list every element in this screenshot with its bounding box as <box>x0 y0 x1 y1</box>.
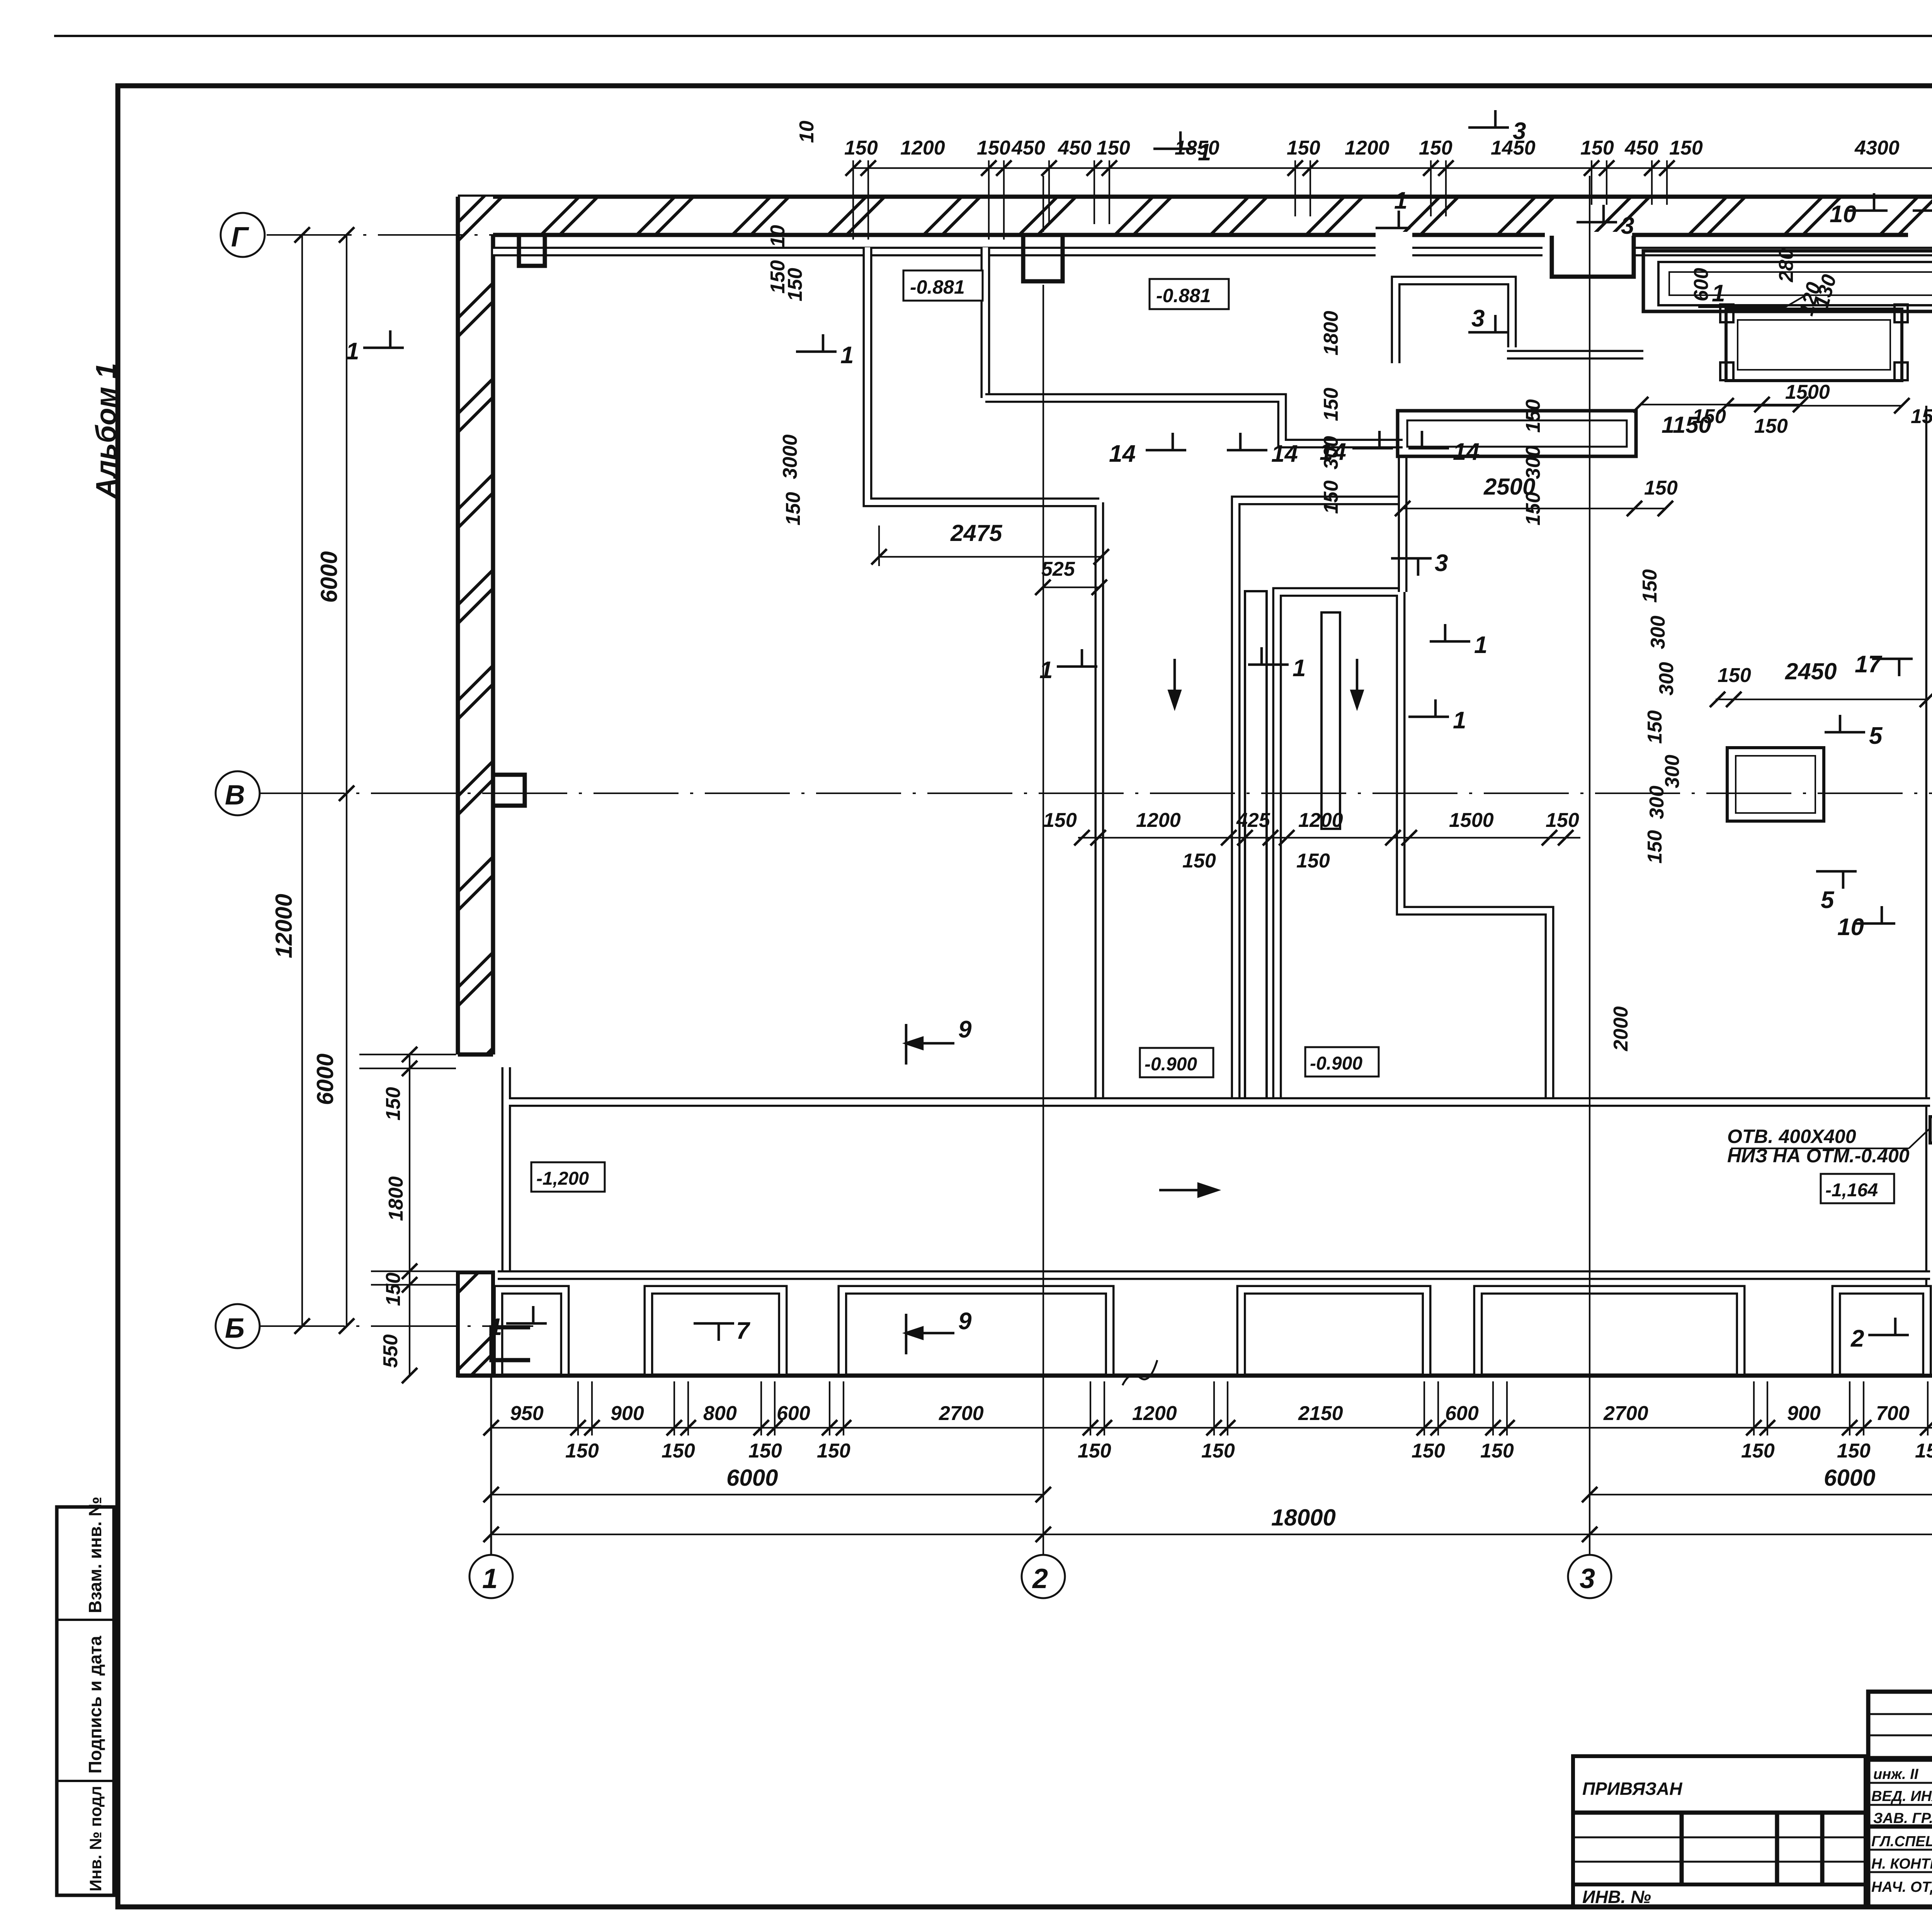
svg-text:6000: 6000 <box>316 551 342 603</box>
dim line 1500 pit <box>1692 381 1932 428</box>
axis 3 line <box>1589 176 1590 1555</box>
corridor channel -1.200 top edge <box>506 1067 1930 1275</box>
svg-text:1800: 1800 <box>1320 311 1342 355</box>
channel H2 to the right <box>1507 350 1643 360</box>
bottom dim labels row2 150 <box>565 1440 1932 1462</box>
flag 3 above wall <box>1468 110 1526 145</box>
svg-text:7: 7 <box>736 1318 750 1344</box>
svg-text:2450: 2450 <box>1785 658 1837 684</box>
svg-text:18000: 18000 <box>1271 1505 1336 1531</box>
channel V6 vertical right <box>1930 406 1932 1374</box>
svg-text:450: 450 <box>1058 137 1092 159</box>
bottom bay 1 <box>498 1290 565 1374</box>
svg-text:300: 300 <box>1661 755 1684 788</box>
svg-text:150: 150 <box>1718 664 1751 687</box>
bottom bay 5 <box>1478 1290 1741 1374</box>
level box -1,200 <box>531 1162 605 1192</box>
interior dim 525 <box>1035 558 1107 595</box>
svg-text:-0.900: -0.900 <box>1145 1054 1197 1075</box>
svg-text:1200: 1200 <box>1136 809 1181 832</box>
big left channel -0.881 <box>867 247 1403 1102</box>
svg-text:1200: 1200 <box>1298 809 1343 832</box>
svg-text:ОТВ. 400Х400: ОТВ. 400Х400 <box>1727 1126 1856 1147</box>
top right strip channel S1 <box>1643 251 1932 311</box>
down arrows <box>1169 659 1180 707</box>
privyazan box <box>1573 1756 1866 1907</box>
flag 5 pair <box>1825 715 1883 749</box>
bottom dim chain row <box>483 1376 1932 1435</box>
level box -0.881 left <box>903 270 983 301</box>
svg-text:3000: 3000 <box>779 434 801 479</box>
svg-text:14: 14 <box>1109 440 1136 467</box>
svg-text:2475: 2475 <box>950 520 1003 546</box>
svg-text:150: 150 <box>1644 477 1678 499</box>
svg-text:3: 3 <box>1580 1563 1595 1594</box>
left margin stamp boxes <box>57 1497 114 1895</box>
top dim labels <box>844 137 1932 159</box>
channel V2 <box>1277 592 1549 1102</box>
svg-text:150: 150 <box>1320 480 1342 514</box>
flag 9 upper <box>906 1016 972 1065</box>
svg-text:10: 10 <box>1830 201 1856 228</box>
niche under top wall <box>1552 236 1634 277</box>
svg-text:450: 450 <box>1624 137 1658 159</box>
perimeter channel under top wall <box>493 247 1932 257</box>
left dim chain 12000 <box>271 227 310 1334</box>
svg-text:150: 150 <box>748 1440 782 1462</box>
flag 3 lower <box>1391 550 1448 577</box>
channel V1 right edge / H1 bottom <box>1236 500 1403 1102</box>
svg-text:150: 150 <box>1644 710 1666 744</box>
flag 3 mid2 <box>1468 305 1509 332</box>
axis 1 circle <box>469 1555 513 1598</box>
svg-text:150: 150 <box>1480 1440 1514 1462</box>
axis V circle <box>216 771 260 815</box>
flag 9 lower <box>906 1308 972 1354</box>
svg-text:Н. КОНТР.: Н. КОНТР. <box>1871 1856 1932 1872</box>
column bracket bottom left <box>492 1327 530 1360</box>
album label (vertical) <box>90 363 122 499</box>
left dim chain 6000+6000 <box>312 227 354 1334</box>
svg-text:450: 450 <box>1011 137 1045 159</box>
svg-text:150: 150 <box>817 1440 850 1462</box>
svg-text:14: 14 <box>1453 439 1480 465</box>
svg-text:14: 14 <box>1271 440 1298 467</box>
flag 1 wall gap <box>1376 187 1410 228</box>
svg-text:-0.881: -0.881 <box>1156 285 1211 306</box>
svg-text:150: 150 <box>1522 399 1544 433</box>
svg-text:10: 10 <box>767 225 789 247</box>
flag 10 pair <box>1837 906 1895 940</box>
flag 1 bay <box>489 1306 547 1340</box>
svg-text:600: 600 <box>1445 1402 1479 1425</box>
svg-text:3: 3 <box>1621 213 1634 239</box>
svg-text:1: 1 <box>1712 280 1725 307</box>
svg-text:150: 150 <box>382 1087 405 1121</box>
bottom 18000 dim <box>483 1505 1932 1542</box>
svg-text:800: 800 <box>703 1402 737 1425</box>
left door dim chain <box>359 1047 456 1383</box>
svg-text:НАЧ. ОТД.: НАЧ. ОТД. <box>1871 1879 1932 1895</box>
svg-text:1500: 1500 <box>1785 381 1830 403</box>
interior dim 1150/150 <box>1633 397 1808 438</box>
svg-text:Взам. инв. №: Взам. инв. № <box>85 1497 105 1613</box>
axis B circle <box>216 1304 260 1348</box>
svg-text:2000: 2000 <box>1610 1006 1632 1051</box>
interior dim 2500/150 <box>1395 474 1678 516</box>
channel V3 <box>1398 456 1408 592</box>
interior dim 2475 <box>871 520 1109 566</box>
svg-text:150: 150 <box>1644 830 1666 864</box>
svg-text:1: 1 <box>1394 187 1407 214</box>
break squiggle on bottom line <box>1122 1360 1157 1385</box>
level box -0.881 right <box>1150 279 1229 309</box>
flag 7 bay <box>694 1318 750 1344</box>
svg-text:1: 1 <box>482 1563 498 1594</box>
svg-text:300: 300 <box>1655 662 1678 696</box>
axis 1 line <box>490 1376 492 1555</box>
svg-text:6000: 6000 <box>312 1054 338 1105</box>
svg-text:12000: 12000 <box>271 894 297 958</box>
svg-text:Подпись и дата: Подпись и дата <box>85 1636 105 1774</box>
pit P0 in strip <box>1720 304 1908 381</box>
svg-text:В: В <box>225 780 245 811</box>
svg-text:150: 150 <box>1692 405 1726 428</box>
svg-text:150: 150 <box>1911 405 1932 428</box>
svg-text:150: 150 <box>382 1272 405 1306</box>
axis V line <box>260 793 1932 794</box>
svg-text:950: 950 <box>510 1402 544 1425</box>
svg-text:150: 150 <box>565 1440 599 1462</box>
svg-text:1200: 1200 <box>1132 1402 1177 1425</box>
svg-text:150: 150 <box>1522 492 1544 526</box>
svg-text:-1,200: -1,200 <box>536 1168 589 1189</box>
svg-text:-1,164: -1,164 <box>1825 1180 1878 1201</box>
svg-text:1200: 1200 <box>900 137 945 159</box>
svg-text:2700: 2700 <box>1603 1402 1648 1425</box>
leader 1 top right <box>1698 280 1808 307</box>
svg-text:150: 150 <box>662 1440 695 1462</box>
opening note <box>1727 1117 1932 1167</box>
svg-text:ПРИВЯЗАН: ПРИВЯЗАН <box>1582 1779 1682 1799</box>
bottom dim labels row1 <box>510 1402 1932 1425</box>
svg-text:600: 600 <box>1690 268 1713 301</box>
bottom bay 3 <box>842 1290 1110 1374</box>
svg-text:150: 150 <box>1320 388 1342 421</box>
svg-text:300: 300 <box>1647 616 1669 649</box>
flag 2 left <box>1850 1318 1909 1352</box>
flags 1 mid plan <box>1039 649 1097 684</box>
svg-text:1: 1 <box>1293 655 1306 682</box>
svg-text:1200: 1200 <box>1345 137 1389 159</box>
top wall hatched band <box>458 197 1932 238</box>
svg-text:900: 900 <box>1787 1402 1821 1425</box>
level box -0.900 right <box>1305 1047 1379 1077</box>
svg-text:150: 150 <box>1201 1440 1235 1462</box>
section flags <box>346 110 1932 1354</box>
bottom bay 6 <box>1836 1290 1927 1374</box>
svg-text:5: 5 <box>1821 887 1835 913</box>
svg-text:150: 150 <box>1287 137 1320 159</box>
svg-text:150: 150 <box>1043 809 1077 832</box>
corridor bottom edge <box>498 1270 1930 1280</box>
svg-text:17: 17 <box>1855 651 1882 678</box>
axis G line <box>267 234 580 236</box>
svg-text:2: 2 <box>1032 1563 1048 1594</box>
svg-text:150: 150 <box>1097 137 1130 159</box>
title block signature grid <box>1868 1692 1932 1907</box>
svg-text:150: 150 <box>844 137 878 159</box>
svg-text:6000: 6000 <box>1824 1465 1875 1491</box>
svg-text:инж. II: инж. II <box>1873 1766 1919 1782</box>
svg-text:9: 9 <box>958 1016 972 1043</box>
svg-text:-0.881: -0.881 <box>910 276 965 298</box>
svg-text:1: 1 <box>1453 707 1466 734</box>
svg-text:ЗАВ. ГР.: ЗАВ. ГР. <box>1873 1810 1932 1827</box>
svg-text:1: 1 <box>346 338 359 365</box>
svg-text:Б: Б <box>225 1313 245 1344</box>
svg-text:150: 150 <box>1639 569 1661 603</box>
flag 10 top <box>1830 193 1888 228</box>
interior mid dim row <box>1043 809 1580 872</box>
svg-text:14: 14 <box>1320 439 1346 465</box>
svg-text:900: 900 <box>611 1402 644 1425</box>
svg-text:150: 150 <box>767 260 789 294</box>
svg-text:3: 3 <box>1471 305 1485 332</box>
svg-text:280: 280 <box>1775 248 1798 282</box>
bottom bay 4 <box>1241 1290 1427 1374</box>
channel G1 top-middle <box>1396 281 1512 363</box>
svg-text:150: 150 <box>1412 1440 1445 1462</box>
bottom boundary line <box>458 1374 1932 1378</box>
svg-text:150: 150 <box>1419 137 1452 159</box>
svg-text:Г: Г <box>231 222 249 253</box>
svg-text:1500: 1500 <box>1449 809 1494 832</box>
svg-text:1: 1 <box>1474 632 1487 658</box>
flag 3 in plan top <box>1577 205 1634 239</box>
svg-text:-0.900: -0.900 <box>1310 1053 1362 1074</box>
svg-text:150: 150 <box>1546 809 1579 832</box>
svg-text:150: 150 <box>1915 1440 1932 1462</box>
svg-text:2700: 2700 <box>939 1402 984 1425</box>
svg-text:1: 1 <box>489 1314 502 1340</box>
svg-text:300: 300 <box>1522 446 1544 479</box>
slot in channel V3 <box>1321 612 1340 829</box>
rotated dims left of channels <box>779 121 1684 1051</box>
svg-text:700: 700 <box>1876 1402 1910 1425</box>
flag 17 pair <box>1855 651 1913 678</box>
svg-text:150: 150 <box>1580 137 1614 159</box>
svg-text:9: 9 <box>958 1308 972 1335</box>
svg-text:Альбом 1: Альбом 1 <box>90 363 122 499</box>
flag 5 top <box>1913 193 1932 228</box>
svg-text:150: 150 <box>1741 1440 1775 1462</box>
left wall hatched band <box>458 197 493 1054</box>
svg-text:2: 2 <box>1850 1325 1864 1352</box>
svg-text:150: 150 <box>1754 415 1788 437</box>
interior dim 2450/150 <box>1710 658 1932 707</box>
svg-text:150: 150 <box>1078 1440 1111 1462</box>
flag 1 top-left inside <box>796 334 854 369</box>
finger channel F1 <box>1398 411 1636 456</box>
top dim chain <box>845 160 1932 240</box>
svg-text:525: 525 <box>1041 558 1075 580</box>
svg-text:6000: 6000 <box>726 1465 778 1491</box>
flag 1 above wall <box>1153 131 1211 166</box>
svg-text:Инв. № подл: Инв. № подл <box>87 1786 105 1891</box>
svg-text:1: 1 <box>1198 139 1211 166</box>
svg-text:5: 5 <box>1869 723 1883 749</box>
top mini dim 10/150 <box>767 225 789 294</box>
level box -0.900 left <box>1140 1048 1213 1077</box>
rotated dims right cluster <box>1690 210 1932 1128</box>
bottom bay 2 <box>648 1290 783 1374</box>
slot in channel V1 <box>1245 591 1267 1099</box>
svg-text:4300: 4300 <box>1854 137 1900 159</box>
svg-text:150: 150 <box>977 137 1010 159</box>
svg-text:600: 600 <box>777 1402 810 1425</box>
svg-text:10: 10 <box>796 121 818 143</box>
flag 1 left outside <box>346 330 404 365</box>
svg-text:10: 10 <box>1837 914 1864 940</box>
svg-text:550: 550 <box>379 1334 402 1368</box>
axis 3 circle <box>1568 1555 1611 1598</box>
svg-text:150: 150 <box>1296 850 1330 872</box>
left wall bottom corner piece <box>458 1272 493 1376</box>
svg-text:2150: 2150 <box>1298 1402 1343 1425</box>
axis G circle <box>221 213 265 257</box>
svg-text:1: 1 <box>1039 657 1053 684</box>
column bump left wall axis B <box>493 775 525 806</box>
svg-text:150: 150 <box>1669 137 1703 159</box>
svg-text:425: 425 <box>1236 809 1270 832</box>
bottom 6000 dims <box>483 1465 1932 1502</box>
svg-text:1800: 1800 <box>385 1176 407 1221</box>
svg-text:ГЛ.СПЕЦ.: ГЛ.СПЕЦ. <box>1871 1833 1932 1850</box>
svg-text:500: 500 <box>1930 538 1932 572</box>
svg-text:ИНВ. №: ИНВ. № <box>1582 1887 1651 1907</box>
svg-text:150: 150 <box>1182 850 1216 872</box>
svg-text:3: 3 <box>1435 550 1448 577</box>
signature rows text <box>1871 1766 1932 1895</box>
pit D near axis V <box>1727 748 1824 821</box>
axis 2 circle <box>1022 1555 1065 1598</box>
pilaster on top wall mid <box>1023 236 1063 281</box>
right arrow corridor <box>1159 1184 1217 1196</box>
level box -1,164 <box>1821 1174 1894 1203</box>
svg-text:3: 3 <box>1513 118 1526 145</box>
pilaster on top wall left <box>519 236 545 266</box>
axis B line <box>260 1325 533 1327</box>
svg-text:1: 1 <box>840 342 854 369</box>
svg-text:150: 150 <box>782 492 804 526</box>
axis 2 line <box>1043 176 1044 1555</box>
svg-text:300: 300 <box>1646 786 1668 819</box>
svg-text:ВЕД. ИНЖ.: ВЕД. ИНЖ. <box>1871 1788 1932 1804</box>
svg-text:150: 150 <box>1837 1440 1871 1462</box>
flags 14 <box>1109 433 1186 467</box>
